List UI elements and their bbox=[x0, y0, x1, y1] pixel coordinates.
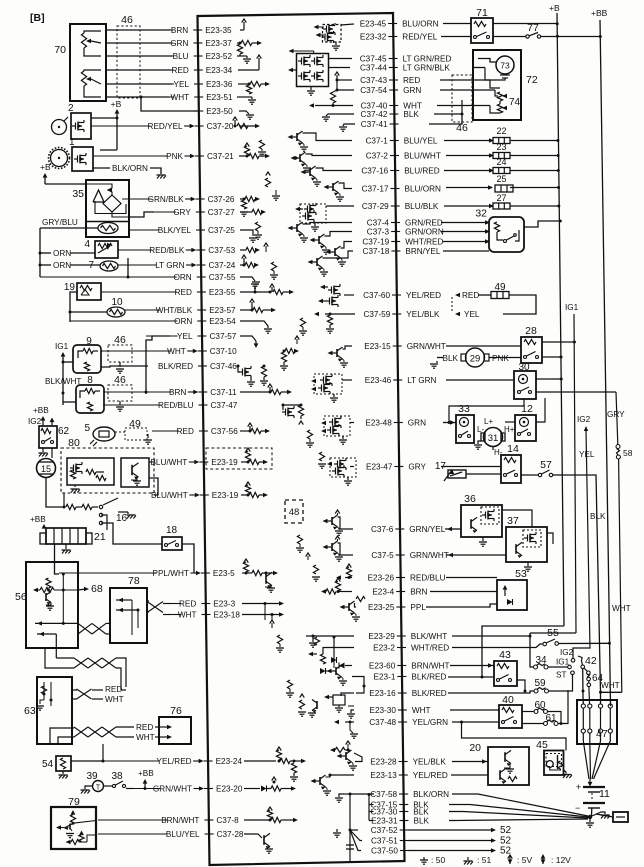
pair continues down-right bbox=[103, 686, 126, 688]
wire 59 to ST contact bbox=[549, 675, 573, 691]
internal cluster mid column g bbox=[277, 635, 282, 644]
svg-text:C37-54: C37-54 bbox=[360, 86, 387, 95]
internal network E23-37/E23-52 bbox=[237, 42, 240, 44]
svg-text:[B]: [B] bbox=[30, 12, 45, 24]
wires 52 from C37-52/51/50 bbox=[408, 829, 494, 831]
wiring 30/33/12/31 bbox=[449, 399, 524, 423]
svg-text:C37-25: C37-25 bbox=[208, 226, 235, 235]
internal cluster mid column i bbox=[316, 701, 318, 709]
internal transistor C37-16 bbox=[316, 168, 353, 171]
internal network C37-25 bbox=[240, 230, 253, 236]
wire BLK/RED E23-16 to 59 bbox=[448, 691, 534, 693]
svg-text:RED: RED bbox=[136, 723, 153, 732]
wire LT GRN E23-46 to 30 bbox=[446, 379, 514, 381]
ground at 37 bbox=[527, 562, 529, 566]
wire BRN/WHT E23-60 to 43 bbox=[450, 665, 494, 667]
internal cluster mid column d bbox=[300, 318, 305, 327]
wire from 19 left down bbox=[70, 292, 77, 322]
svg-text:73: 73 bbox=[500, 61, 510, 71]
internal mosfet pair C37-60 bbox=[333, 286, 335, 295]
wire GRY from 35 to C37-27 bbox=[129, 212, 154, 217]
wire GRN E23-48 to 33 bbox=[443, 422, 456, 424]
internal link stubs C37-15/C37-30/E23-31 bbox=[368, 795, 370, 821]
internal network C37-43/C37-54 bbox=[337, 79, 352, 81]
svg-text:C37-53: C37-53 bbox=[208, 246, 235, 255]
svg-text:RED: RED bbox=[177, 427, 194, 436]
wire YEL/RED from 54 to E23-24 bbox=[71, 760, 103, 762]
svg-text:E23-20: E23-20 bbox=[216, 785, 243, 794]
svg-text:11: 11 bbox=[599, 788, 610, 800]
wire IG1 to box 9 bbox=[63, 361, 73, 363]
wire BLU/WHT to E23-19 (lower) bbox=[149, 478, 158, 495]
svg-text:RED/BLU: RED/BLU bbox=[410, 574, 446, 583]
svg-text:H+: H+ bbox=[504, 425, 515, 434]
wire from 16 middle bbox=[101, 515, 107, 530]
svg-text:WHT/BLK: WHT/BLK bbox=[156, 306, 193, 315]
wire 71 to +B bbox=[493, 23, 557, 25]
svg-text:ORN: ORN bbox=[53, 249, 71, 258]
svg-text:70: 70 bbox=[54, 44, 66, 56]
internal network E23-57 bbox=[240, 309, 252, 311]
svg-text:BLK/RED: BLK/RED bbox=[412, 689, 447, 698]
svg-text:+B: +B bbox=[549, 3, 560, 13]
svg-text:21: 21 bbox=[94, 531, 106, 543]
wire BLU/YEL from 79 to C37-28 bbox=[88, 833, 98, 835]
internal mosfet pair E23-45/E23-32 bbox=[323, 25, 342, 43]
svg-text:46: 46 bbox=[114, 374, 126, 386]
wire 62 to 15 bbox=[51, 448, 53, 458]
svg-text:E23-24: E23-24 bbox=[216, 757, 243, 766]
svg-text:IG2: IG2 bbox=[28, 417, 42, 426]
IG1 bus vertical bbox=[574, 314, 576, 633]
internal network E23-28 bbox=[354, 753, 362, 762]
ground for relay 62 bbox=[42, 448, 44, 452]
svg-text:LT GRN/BLK: LT GRN/BLK bbox=[403, 64, 451, 73]
wire RED/YEL E23-32 to 71 switch bbox=[441, 36, 471, 38]
svg-text:T: T bbox=[96, 785, 101, 792]
ground at 31 bbox=[478, 441, 481, 444]
svg-text:C37-56: C37-56 bbox=[211, 427, 238, 436]
svg-text:36: 36 bbox=[464, 493, 476, 505]
internal wires E23-1/E23-16 bbox=[352, 677, 364, 694]
svg-text:E23-34: E23-34 bbox=[206, 66, 233, 75]
svg-text:E23-25: E23-25 bbox=[368, 603, 395, 612]
wire BLU/ORN E23-45 to 71 bbox=[443, 23, 471, 25]
svg-text:C37-48: C37-48 bbox=[369, 718, 396, 727]
svg-text:28: 28 bbox=[525, 325, 537, 337]
shield ground at 9 bbox=[119, 362, 121, 367]
svg-text:E23-57: E23-57 bbox=[209, 306, 236, 315]
svg-text:WHT: WHT bbox=[601, 681, 620, 690]
internal cluster mid column b bbox=[265, 178, 270, 187]
svg-text:RED: RED bbox=[172, 66, 189, 75]
internal network C37-53 bbox=[240, 249, 246, 251]
internal driver block C37-45/C37-44 bbox=[297, 54, 329, 87]
svg-text:20: 20 bbox=[469, 742, 481, 754]
internal network C37-8 bbox=[244, 819, 270, 821]
internal network E23-5 bbox=[242, 572, 252, 574]
svg-text:46: 46 bbox=[121, 14, 133, 26]
svg-text:32: 32 bbox=[475, 208, 487, 220]
wire +B elbow to box 1 bbox=[100, 149, 117, 151]
wire GRN from 70 to E23-37 bbox=[106, 42, 170, 44]
svg-text:LT GRN: LT GRN bbox=[407, 376, 436, 385]
svg-text:GRN/WHT: GRN/WHT bbox=[410, 551, 449, 560]
wire BRN from 8 to C37-11 bbox=[145, 391, 148, 394]
svg-text:53: 53 bbox=[515, 568, 527, 580]
svg-text:E23-35: E23-35 bbox=[205, 26, 232, 35]
svg-text:BLK: BLK bbox=[403, 110, 419, 119]
wire YEL/GRN C37-48 to 40 bbox=[452, 721, 499, 723]
+BB bus vertical bbox=[600, 20, 611, 706]
svg-text:BRN: BRN bbox=[169, 388, 186, 397]
svg-text:YEL/BLK: YEL/BLK bbox=[413, 758, 447, 767]
ground at 16 bbox=[118, 511, 128, 513]
ground near 5 bbox=[147, 434, 149, 438]
svg-text:48: 48 bbox=[289, 507, 300, 518]
wire WHT from 70 to E23-51 bbox=[106, 96, 169, 98]
svg-text:LT GRN: LT GRN bbox=[155, 261, 184, 270]
svg-text:GRY/BLU: GRY/BLU bbox=[42, 218, 78, 227]
svg-text:C37-45: C37-45 bbox=[360, 55, 387, 64]
svg-text:+BB: +BB bbox=[138, 769, 154, 778]
internal transistor C37-4 bbox=[303, 223, 353, 225]
wire GRY/BLU from 35 field coil bbox=[40, 227, 98, 229]
svg-text:33: 33 bbox=[458, 403, 470, 415]
svg-text:RED: RED bbox=[175, 288, 192, 297]
svg-text:C37-42: C37-42 bbox=[361, 110, 388, 119]
ground in 80 bbox=[74, 485, 76, 487]
svg-text:E23-60: E23-60 bbox=[369, 662, 396, 671]
legend 12V flag bbox=[541, 854, 546, 859]
svg-text:C37-6: C37-6 bbox=[371, 525, 394, 534]
internal transistor C37-17 bbox=[339, 183, 353, 189]
svg-text:C37-50: C37-50 bbox=[371, 847, 398, 856]
svg-text:25: 25 bbox=[496, 174, 506, 184]
svg-text:35: 35 bbox=[72, 188, 84, 200]
wire BLK/RED E23-1 to 43 bbox=[448, 676, 494, 678]
svg-text:E23-54: E23-54 bbox=[209, 317, 236, 326]
wire BLK/ORN from box 1 to ground bbox=[93, 167, 110, 169]
internal stub E23-50 bbox=[239, 111, 249, 114]
wire BLU from 70 to E23-52 bbox=[106, 55, 172, 57]
ground for BLK/ORN bbox=[157, 174, 166, 176]
wire 30 to +B bbox=[536, 378, 561, 380]
svg-text:+B: +B bbox=[111, 99, 122, 109]
svg-text:BLK: BLK bbox=[590, 512, 606, 521]
svg-text:BLK: BLK bbox=[443, 354, 459, 363]
svg-text:BLU/WHT: BLU/WHT bbox=[404, 152, 441, 161]
internal network C37-58 group bbox=[350, 793, 374, 795]
svg-text:RED: RED bbox=[462, 291, 479, 300]
svg-text:C37-24: C37-24 bbox=[209, 261, 236, 270]
wire 28 to +B bus bbox=[542, 356, 561, 358]
svg-text:YEL/GRN: YEL/GRN bbox=[412, 718, 448, 727]
wire 21 to box 56 bbox=[55, 544, 60, 574]
wire from 18 to E23-5 PPL/WHT bbox=[182, 544, 194, 573]
internal transistor C37-19 bbox=[341, 242, 353, 249]
svg-text:43: 43 bbox=[499, 649, 511, 661]
svg-text:C37-57: C37-57 bbox=[210, 332, 237, 341]
wire RED to E23-3 bbox=[163, 603, 170, 605]
svg-text:E23-48: E23-48 bbox=[365, 419, 392, 428]
wire RED arrow to C37-60 bbox=[455, 293, 460, 297]
svg-text:E23-46: E23-46 bbox=[365, 376, 392, 385]
internal network E23-2 bbox=[323, 648, 354, 655]
svg-text:IG2: IG2 bbox=[560, 648, 574, 657]
internal transistor E23-25 bbox=[355, 603, 357, 607]
wire ORN to resistor 4 bbox=[40, 252, 51, 254]
internal ground near C37-58 left bbox=[336, 793, 344, 795]
YEL wire from ignition switch IG2 terminal bbox=[573, 430, 590, 659]
svg-text:C37-58: C37-58 bbox=[370, 790, 397, 799]
svg-text:23: 23 bbox=[496, 142, 506, 152]
wire GRY E23-47 to 14 bbox=[441, 466, 501, 468]
shield dashed box 46 right bbox=[452, 75, 472, 122]
common ground point bbox=[588, 815, 592, 819]
svg-text:ST: ST bbox=[556, 671, 566, 680]
svg-text:E23-51: E23-51 bbox=[206, 93, 233, 102]
svg-text:L-: L- bbox=[477, 425, 484, 434]
svg-text:E23-31: E23-31 bbox=[371, 817, 398, 826]
box 63 lower pair to 76 bbox=[50, 728, 74, 744]
internal network C37-20 bbox=[239, 125, 256, 127]
svg-text:RED/YEL: RED/YEL bbox=[148, 122, 183, 131]
wire BRN from 70 to E23-35 bbox=[106, 29, 170, 31]
svg-text:L+: L+ bbox=[484, 417, 493, 426]
svg-text:C37-21: C37-21 bbox=[207, 152, 234, 161]
twisted pair 56-78 bbox=[78, 623, 92, 634]
internal network C37-41 bbox=[343, 124, 355, 126]
svg-text:PNK: PNK bbox=[492, 354, 509, 363]
svg-text:IG2: IG2 bbox=[577, 415, 591, 424]
internal transistor C37-6 bbox=[338, 517, 354, 529]
internal network C37-28 bbox=[244, 834, 262, 838]
internal network E23-54 bbox=[240, 321, 268, 328]
wire WHT to E23-18 bbox=[163, 614, 170, 616]
svg-text:BLK/YEL: BLK/YEL bbox=[158, 226, 192, 235]
shield dashed box 46 at 9 bbox=[108, 345, 132, 362]
internal network C37-48 bbox=[345, 721, 354, 723]
internal network E23-19 lower bbox=[241, 494, 248, 496]
wire 30 switch to GRY bus bbox=[536, 391, 616, 393]
internal network E23-24 bbox=[244, 760, 276, 762]
svg-text:C37-17: C37-17 bbox=[362, 185, 389, 194]
svg-text:BLU/WHT: BLU/WHT bbox=[150, 458, 187, 467]
svg-text:E23-18: E23-18 bbox=[214, 611, 241, 620]
internal mosfet E23-48 bbox=[324, 416, 350, 436]
link 42 common to 64 bbox=[584, 668, 588, 672]
wire LT GRN/RED C37-45 to 73 bbox=[478, 59, 496, 63]
wires from 56 to twisted pair bbox=[35, 622, 78, 624]
svg-text:E23-28: E23-28 bbox=[370, 758, 397, 767]
wire from 10 to vertical bbox=[70, 311, 107, 313]
internal mosfet C37-29 bbox=[300, 204, 326, 223]
amplifier box 1 bbox=[72, 147, 93, 171]
motor 73 bbox=[496, 56, 514, 74]
IG1 elbow to breaker 34 node bbox=[530, 632, 576, 634]
wire 55 to +BB bus bbox=[559, 642, 610, 644]
svg-text:GRY: GRY bbox=[173, 208, 191, 217]
svg-text:5: 5 bbox=[84, 423, 90, 434]
svg-text:C37-41: C37-41 bbox=[361, 120, 388, 129]
svg-text:57: 57 bbox=[540, 459, 552, 471]
wire GRN/YEL C37-6 to 36 bbox=[445, 528, 461, 530]
svg-text:E23-55: E23-55 bbox=[209, 288, 236, 297]
svg-text:GRN/RED: GRN/RED bbox=[405, 219, 443, 228]
svg-text:+BB: +BB bbox=[591, 8, 608, 18]
svg-text:63: 63 bbox=[24, 705, 36, 717]
GRY/WHT bus continues below 58 bbox=[619, 459, 622, 692]
svg-text:78: 78 bbox=[128, 575, 140, 587]
wire 77 to +BB bbox=[541, 36, 601, 38]
internal transistor E23-15 bbox=[343, 346, 353, 349]
internal mosfet E23-47 bbox=[330, 458, 356, 477]
wire YEL/RED E23-13 to 20 bbox=[451, 774, 488, 776]
svg-text:BLU: BLU bbox=[173, 52, 189, 61]
svg-text:C37-20: C37-20 bbox=[207, 122, 234, 131]
svg-text:+B: +B bbox=[40, 162, 51, 172]
lower twisted pair bbox=[74, 658, 88, 668]
svg-text:RED: RED bbox=[179, 600, 196, 609]
wire 34 to IG1 contact bbox=[548, 666, 568, 668]
svg-text:LT GRN/RED: LT GRN/RED bbox=[403, 55, 452, 64]
internal network E23-29 bbox=[306, 635, 354, 637]
internal network C37-40 bbox=[315, 105, 353, 107]
internal stub E23-34 bbox=[238, 69, 259, 71]
svg-text:42: 42 bbox=[585, 655, 597, 667]
svg-text:YEL: YEL bbox=[174, 80, 190, 89]
svg-text:38: 38 bbox=[111, 771, 123, 782]
svg-text:IG1: IG1 bbox=[565, 303, 579, 312]
svg-text:BLK/WHT: BLK/WHT bbox=[45, 377, 81, 386]
dashed mechanical link bbox=[451, 297, 453, 312]
internal network E23-19 upper with dashed box bbox=[206, 448, 272, 469]
internal top stub bbox=[304, 16, 306, 20]
internal transistor C37-18 bbox=[323, 251, 354, 258]
internal transistor C37-2 bbox=[306, 154, 353, 156]
svg-text:C37-43: C37-43 bbox=[360, 76, 387, 85]
ground at 36 bbox=[482, 537, 484, 541]
svg-text:BLK/ORN: BLK/ORN bbox=[112, 164, 148, 173]
wire YEL from 70 to E23-36 bbox=[106, 83, 172, 85]
wire E23-50 shield drain bbox=[141, 97, 198, 111]
svg-text:RED/BLK: RED/BLK bbox=[149, 246, 185, 255]
svg-text:E23-13: E23-13 bbox=[370, 771, 397, 780]
svg-text:YEL/BLK: YEL/BLK bbox=[406, 310, 440, 319]
internal network C37-24 bbox=[240, 264, 244, 266]
ground at 21 bbox=[65, 544, 67, 549]
svg-text:E23-3: E23-3 bbox=[213, 600, 235, 609]
svg-text:PPL: PPL bbox=[410, 603, 426, 612]
svg-text:55: 55 bbox=[547, 627, 559, 639]
internal transistor C37-5 bbox=[338, 543, 354, 555]
svg-text:62: 62 bbox=[58, 426, 70, 437]
svg-text:BRN/WHT: BRN/WHT bbox=[411, 662, 449, 671]
internal ground near C37-52 bbox=[336, 830, 350, 832]
svg-text:E23-26: E23-26 bbox=[368, 574, 395, 583]
svg-text:BLK: BLK bbox=[414, 817, 430, 826]
internal transistor C37-1 bbox=[303, 133, 353, 141]
internal network C37-26 bbox=[240, 198, 244, 200]
svg-text:C37-2: C37-2 bbox=[366, 152, 389, 161]
wire into battery positive bbox=[589, 779, 591, 783]
vertical wire GRY/BLU down bbox=[39, 228, 41, 277]
svg-text:68: 68 bbox=[91, 583, 103, 595]
svg-text:31: 31 bbox=[488, 433, 499, 444]
wire GRN C37-54 into 72 bbox=[440, 89, 495, 91]
wire RED from 5 to C37-56 bbox=[115, 431, 125, 433]
svg-text:14: 14 bbox=[507, 443, 519, 455]
svg-text:YEL/RED: YEL/RED bbox=[157, 757, 192, 766]
svg-text:RED/BLU: RED/BLU bbox=[158, 401, 194, 410]
svg-text:GRY: GRY bbox=[408, 463, 426, 472]
svg-text:BLU/ORN: BLU/ORN bbox=[405, 185, 441, 194]
wire LT GRN/BLK C37-44 to 73 bbox=[473, 67, 485, 69]
wires 47 bottom fan to battery positive bbox=[583, 733, 589, 779]
internal vertical to C37-52/51/50 bbox=[349, 794, 351, 861]
wire IG1 to box 8 bbox=[63, 401, 76, 403]
svg-text:76: 76 bbox=[170, 705, 182, 717]
wire from 4 down to ORN bbox=[127, 258, 129, 277]
internal network C37-56 bbox=[240, 430, 250, 432]
internal cluster mid column f bbox=[297, 535, 302, 544]
resistor chain to switch 16 bbox=[63, 506, 66, 509]
svg-text:E23-37: E23-37 bbox=[205, 39, 232, 48]
alternator box 35 (rectifier bridge) bbox=[86, 180, 129, 237]
legend ground 51 bbox=[467, 857, 469, 860]
wire +B to box 2 bbox=[91, 117, 117, 119]
svg-text:WHT: WHT bbox=[412, 706, 431, 715]
wire BLK/RED from 9 to C37-46 bbox=[101, 366, 148, 367]
svg-text:E23-36: E23-36 bbox=[206, 80, 233, 89]
svg-text:BLU/BLK: BLU/BLK bbox=[405, 202, 439, 211]
svg-text:C37-29: C37-29 bbox=[362, 202, 389, 211]
wire 57 to BLK bus down to connector 47 pin3 bbox=[553, 475, 601, 704]
svg-text:C37-55: C37-55 bbox=[209, 273, 236, 282]
+B feed elbow to relay 43 row bbox=[482, 626, 564, 677]
legend 5V flag bbox=[508, 855, 513, 859]
svg-text:37: 37 bbox=[507, 515, 519, 527]
wire WHT C37-40 into 72 bbox=[437, 105, 490, 107]
svg-text:C37-28: C37-28 bbox=[217, 830, 244, 839]
svg-text:58: 58 bbox=[623, 448, 633, 458]
svg-text:E23-15: E23-15 bbox=[364, 342, 391, 351]
wire BLK/WHT E23-29 to ignition breaker 34 bbox=[452, 635, 530, 637]
svg-text:C37-10: C37-10 bbox=[210, 347, 237, 356]
wire 28 to IG1 bus bbox=[542, 341, 574, 343]
internal capacitor bbox=[346, 844, 354, 846]
wire YEL to C37-57 bbox=[146, 336, 170, 394]
wire RED from 70 to E23-34 bbox=[106, 69, 171, 71]
internal network E23-30 bbox=[351, 710, 354, 713]
+B bus vertical bbox=[557, 13, 564, 626]
wire 37 output down to breaker 34 node bbox=[547, 533, 553, 544]
internal regulator E23-16 bbox=[341, 693, 351, 696]
internal mosfet E23-46 bbox=[314, 374, 342, 394]
svg-text:7: 7 bbox=[88, 260, 94, 271]
svg-text:+BB: +BB bbox=[30, 515, 46, 524]
internal network C37-47 bbox=[282, 404, 285, 407]
svg-text:WHT/RED: WHT/RED bbox=[405, 238, 443, 247]
wire RED C37-43 into 72 bbox=[440, 79, 490, 81]
wire RED/BLU E23-26 to 53 bbox=[446, 577, 497, 579]
svg-text:C37-8: C37-8 bbox=[216, 816, 239, 825]
wires 56 bottom to lower twisted pair bbox=[45, 648, 74, 668]
amplifier box 2 bbox=[71, 113, 91, 139]
svg-text:C37-52: C37-52 bbox=[371, 826, 398, 835]
svg-text:IG1: IG1 bbox=[556, 658, 570, 667]
